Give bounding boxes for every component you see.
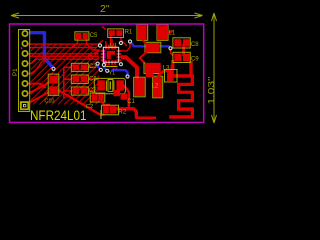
- wire blue P1 pad1 to via: [29, 33, 54, 69]
- wire red thick U1 to antenna match: [121, 57, 137, 78]
- antenna L2 meander: [169, 65, 192, 117]
- capacitor C6: [71, 75, 88, 83]
- dimension right line: [212, 13, 217, 123]
- capacitor C3: [71, 63, 88, 71]
- wire pad C to L3: [140, 52, 147, 64]
- wire red via to C9 left: [171, 48, 174, 55]
- svg-text:NFR24L01: NFR24L01: [30, 107, 87, 123]
- svg-text:P1: P1: [12, 68, 19, 76]
- board outline: [10, 24, 204, 122]
- wire red bundle from P1 to U1: [24, 41, 103, 74]
- wire red U1 top pads up: [106, 38, 112, 47]
- svg-text:C8: C8: [191, 42, 199, 48]
- antenna match pads: [134, 77, 146, 97]
- inductor L3: [144, 62, 162, 74]
- svg-text:L1: L1: [169, 31, 176, 37]
- inductor pad C below L1: [145, 42, 161, 52]
- vias white: [51, 39, 172, 78]
- capacitor C5: [75, 32, 89, 40]
- connector P1 square pad pin1: [20, 101, 29, 110]
- resistor R2: [102, 105, 119, 115]
- IC U1 center pad: [107, 51, 115, 59]
- svg-text:C1: C1: [127, 99, 135, 105]
- capacitor C1: [114, 90, 121, 96]
- capacitor C9: [173, 52, 190, 62]
- capacitor C7: [71, 87, 88, 95]
- svg-text:C9: C9: [191, 57, 199, 63]
- wire blue via to via under L1: [130, 42, 171, 49]
- wire red L2 feed up: [171, 60, 174, 69]
- svg-text:L2: L2: [152, 84, 159, 90]
- crystal Y1: [94, 78, 125, 93]
- IC U1 outline: [103, 47, 118, 62]
- svg-text:C5: C5: [90, 33, 98, 39]
- wire blue U1 bottom: [112, 70, 128, 76]
- svg-text:1.03": 1.03": [207, 76, 216, 104]
- capacitor C2: [90, 93, 105, 102]
- connector P1 round pads: [22, 30, 29, 97]
- svg-text:R1: R1: [125, 30, 133, 36]
- svg-text:C10: C10: [44, 99, 54, 105]
- wire red P1 lower stubs: [24, 82, 49, 103]
- svg-text:R2: R2: [118, 108, 127, 115]
- svg-text:C2: C2: [86, 104, 93, 110]
- wire red small top-left of R1: [102, 27, 106, 30]
- wire red C5 connections: [72, 39, 100, 50]
- resistor R1: [108, 29, 124, 38]
- IC U1 pads: [101, 45, 122, 65]
- wire red C8 C9 vertical: [182, 44, 185, 56]
- silk mark near NFR text: [100, 110, 102, 119]
- via red: [88, 55, 92, 59]
- dimension top line: [11, 13, 203, 18]
- wire blue via jog: [98, 64, 101, 70]
- inductor L1 pad A: [137, 25, 148, 41]
- wire red R2 to right: [115, 109, 136, 117]
- magenta dot left: [21, 47, 23, 49]
- svg-text:Y1: Y1: [109, 71, 116, 77]
- connector P1 outline: [19, 30, 30, 112]
- wire red long diagonal C10 to R2: [57, 90, 105, 115]
- ground pour hatch: [31, 45, 100, 105]
- wire red C3 C6 C7 left vertical: [64, 67, 71, 98]
- wire red U1 right to via: [120, 42, 130, 51]
- wire inner layer magenta at U1 left: [103, 50, 105, 64]
- svg-text:C6: C6: [89, 76, 97, 82]
- wire pad A to pad C: [143, 40, 147, 44]
- wire red R1 connections: [111, 36, 128, 46]
- L1 small pad right: [167, 31, 173, 32]
- inductor L1 pad B: [157, 25, 168, 41]
- L2 feed pad: [165, 70, 178, 83]
- wire red C9 to antenna right column: [189, 61, 192, 76]
- wire red Y1 right down: [122, 85, 156, 118]
- svg-text:U1: U1: [110, 43, 117, 49]
- capacitor C10: [48, 74, 59, 95]
- svg-text:2": 2": [100, 3, 110, 15]
- U1 silk line below: [105, 66, 117, 68]
- capacitor C8: [173, 38, 190, 48]
- wire red C3 C6 C7 right stubs: [88, 67, 99, 96]
